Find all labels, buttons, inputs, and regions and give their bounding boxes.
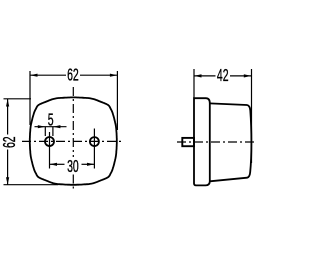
dim 42 extension left bbox=[193, 69, 195, 98]
dim 42 extension right bbox=[251, 69, 253, 163]
dim 30 line left bbox=[50, 163, 65, 165]
svg-text:42: 42 bbox=[217, 66, 229, 85]
side view pin bbox=[182, 138, 194, 146]
svg-text:30: 30 bbox=[67, 157, 79, 176]
dim 62 top arrow left bbox=[30, 74, 38, 77]
hole left vertical mark bbox=[49, 132, 51, 169]
dim 62 left arrow down bbox=[6, 177, 9, 185]
dim 5 extension lines bbox=[45, 127, 53, 136]
dim 5 arrow left bbox=[38, 125, 46, 128]
svg-text:62: 62 bbox=[1, 136, 20, 148]
dim 62 top line left bbox=[30, 74, 66, 76]
dim 5 arrow right bbox=[53, 125, 61, 128]
dim 42 arrow right bbox=[244, 74, 252, 77]
front view outline bbox=[30, 97, 117, 184]
dim 42 arrow left bbox=[194, 74, 202, 77]
dim 30 line right bbox=[82, 163, 95, 165]
dim 62 left extension top bbox=[4, 98, 32, 100]
dim 30 arrow right bbox=[87, 163, 95, 166]
dim 62 top line right bbox=[80, 74, 117, 76]
dim 42 line right bbox=[230, 75, 251, 77]
hole right vertical mark bbox=[93, 129, 95, 169]
dim 62 left line top bbox=[7, 99, 9, 135]
dim 62 left arrow up bbox=[6, 99, 9, 107]
side view flange block bbox=[194, 98, 210, 185]
front view vertical centerline bbox=[72, 87, 74, 157]
svg-text:5: 5 bbox=[48, 111, 54, 130]
dim 62 top arrow right bbox=[110, 74, 118, 77]
hole left bbox=[45, 137, 54, 146]
dim 42 line left bbox=[194, 75, 216, 77]
dim 5 line bbox=[35, 126, 67, 128]
hole right bbox=[90, 137, 99, 146]
front view horizontal centerline bbox=[22, 140, 122, 142]
dim 62 top extension left bbox=[29, 71, 31, 125]
side view centerline bbox=[177, 141, 256, 143]
dim 62 left line bottom bbox=[7, 150, 9, 185]
dim 62 left extension bottom bbox=[4, 184, 59, 186]
side view lens outline bbox=[210, 103, 252, 181]
dim 62 top extension right bbox=[116, 71, 118, 130]
dim 30 arrow left bbox=[50, 163, 58, 166]
svg-text:62: 62 bbox=[67, 66, 79, 85]
